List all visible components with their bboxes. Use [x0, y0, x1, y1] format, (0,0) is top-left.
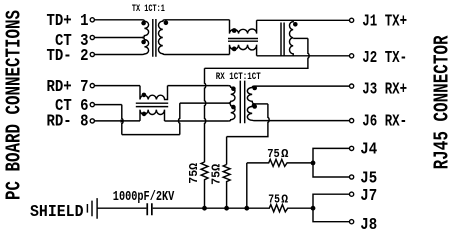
node CT pin 6 terminal — [90, 103, 94, 107]
node J2 TX- terminal — [350, 54, 354, 58]
wire split to J7 — [313, 194, 350, 208]
choke L1 upper winding — [230, 20, 257, 34]
wire choke L2 to transformer T3 bottom — [165, 120, 229, 122]
polarity dot T1 primary upper — [141, 21, 146, 26]
wire T3 to J3 — [255, 85, 350, 87]
transformer T1 TX primary upper winding — [142, 20, 149, 38]
wire choke L2 to transformer T3 top — [168, 85, 229, 87]
wire T1 secondary top to choke L1 — [165, 19, 230, 21]
wire bypass up with hop over RD- net — [179, 103, 180, 135]
junction dot rail at R3 — [244, 206, 249, 211]
choke L1 lower winding — [230, 45, 257, 56]
capacitor C1 1000pF/2KV — [146, 203, 152, 215]
svg-text:TX 1CT:1: TX 1CT:1 — [132, 4, 165, 15]
wire RD+ to choke L2 — [95, 85, 140, 87]
node J6 RX- terminal — [350, 119, 354, 123]
wire T2 center tap — [293, 37, 308, 39]
node RD+ pin 7 terminal — [90, 84, 94, 88]
polarity dot T3 secondary lower — [252, 104, 257, 109]
choke L2 upper winding — [140, 86, 168, 100]
wire choke to J2 — [257, 55, 350, 57]
svg-text:1000pF/2KV: 1000pF/2KV — [113, 189, 175, 205]
wire T3 to J6 — [255, 120, 350, 122]
transformer T1 TX secondary winding — [158, 20, 165, 55]
polarity dot T3 primary lower — [231, 105, 236, 110]
node J3 RX+ terminal — [350, 84, 354, 88]
transformer T3 secondary lower winding — [247, 104, 254, 121]
wire T1 secondary bottom to choke L1 — [165, 54, 230, 56]
wire TD+ to transformer T1 — [95, 19, 142, 21]
svg-text:TD- 2: TD- 2 — [47, 47, 89, 66]
svg-text:J2 TX-: J2 TX- — [362, 49, 407, 68]
polarity dot T1 secondary — [164, 21, 169, 26]
transformer T3 core — [240, 81, 244, 124]
polarity dot L1 lower — [232, 47, 237, 52]
svg-text:Ω: Ω — [281, 192, 288, 206]
wire T3 secondary center tap — [255, 103, 268, 105]
node J8 terminal — [350, 220, 354, 224]
polarity dot T3 secondary upper — [252, 86, 257, 91]
node TD+ pin 1 terminal — [90, 18, 94, 22]
node CT pin 3 terminal — [90, 35, 94, 39]
choke L2 core — [136, 103, 168, 106]
junction dot rail end J7/J8 split — [311, 206, 316, 211]
junction dot rail at R2 — [224, 206, 229, 211]
svg-text:TD+ 1: TD+ 1 — [47, 12, 89, 31]
wire CT to transformer T1 — [95, 37, 145, 39]
polarity dot T1 primary lower — [141, 40, 146, 45]
svg-text:75: 75 — [268, 192, 280, 206]
polarity dot T3 primary upper — [231, 86, 236, 91]
resistor R4 75 ohm horizontal in rail — [153, 205, 313, 212]
resistor R1 75 ohm vertical — [201, 162, 208, 206]
node J7 terminal — [350, 192, 354, 196]
svg-text:J8: J8 — [360, 216, 377, 235]
node J4 terminal — [350, 146, 354, 150]
wire split to J4 — [313, 148, 350, 163]
node RD- pin 8 terminal — [90, 119, 94, 123]
junction dot J4/J5 split — [311, 161, 316, 166]
svg-text:J1 TX+: J1 TX+ — [362, 13, 407, 32]
svg-text:75Ω: 75Ω — [211, 164, 224, 185]
node J5 terminal — [350, 175, 354, 179]
svg-text:J3 RX+: J3 RX+ — [362, 81, 407, 100]
polarity dot L2 upper — [142, 93, 147, 98]
wire common-mode termination vertical with hops — [205, 68, 206, 162]
junction mark at CT6/RD- crossing — [121, 119, 125, 123]
svg-text:RD+ 7: RD+ 7 — [47, 78, 89, 97]
svg-text:Ω: Ω — [281, 147, 288, 161]
choke L1 core — [228, 39, 258, 42]
transformer T3 RX primary lower winding — [228, 103, 235, 121]
svg-text:J5: J5 — [360, 170, 377, 189]
wire CT6 bypass bottom — [122, 134, 180, 136]
wire shield to capacitor C1 — [97, 207, 146, 209]
wire R3 left vertical to rail — [246, 163, 248, 206]
transformer T1 TX primary lower winding — [142, 38, 149, 55]
wire tap down with hop over J2 line — [205, 38, 310, 68]
autotransformer T2 core — [281, 23, 284, 57]
wire split to J5 — [313, 163, 350, 177]
wire RD- to choke L2 — [95, 120, 140, 122]
wire tap down with hop over J6 — [227, 104, 270, 137]
transformer T1 core — [153, 19, 156, 57]
wire down to resistor R2 — [226, 137, 228, 165]
svg-text:J7: J7 — [360, 187, 377, 206]
node J1 TX+ terminal — [350, 18, 354, 22]
wire CT6 vertical with hop over RD- — [122, 105, 123, 135]
wire choke to J1 — [257, 19, 350, 21]
transformer T3 secondary upper winding — [247, 86, 254, 104]
svg-text:SHIELD: SHIELD — [30, 203, 84, 222]
resistor R2 75 ohm vertical — [223, 165, 230, 207]
transformer T3 RX primary upper winding — [228, 86, 235, 104]
svg-text:RJ45 CONNECTOR: RJ45 CONNECTOR — [432, 35, 455, 169]
shield chassis symbol — [87, 198, 97, 219]
resistor R3 75 ohm horizontal — [247, 159, 313, 166]
wire split to J8 — [313, 208, 350, 222]
svg-text:75Ω: 75Ω — [188, 163, 201, 184]
polarity dot L1 upper — [232, 28, 237, 33]
svg-text:75: 75 — [267, 147, 280, 161]
svg-text:J4: J4 — [360, 140, 377, 159]
svg-text:J6 RX-: J6 RX- — [362, 113, 407, 132]
svg-text:RX 1CT:1CT: RX 1CT:1CT — [216, 72, 261, 83]
choke L2 lower winding — [140, 110, 165, 121]
wire TD- to transformer T1 — [95, 54, 142, 56]
wire CT6 horizontal — [95, 104, 122, 106]
wire center tap to transformer T3 — [180, 102, 229, 104]
node TD- pin 2 terminal — [90, 52, 94, 56]
polarity dot L2 lower — [142, 112, 147, 117]
autotransformer T2 winding — [289, 20, 293, 56]
svg-text:PC BOARD CONNECTIONS: PC BOARD CONNECTIONS — [3, 10, 27, 200]
svg-text:RD- 8: RD- 8 — [47, 113, 89, 132]
junction dot rail at R1 — [202, 206, 207, 211]
polarity dot T2 — [293, 22, 298, 27]
